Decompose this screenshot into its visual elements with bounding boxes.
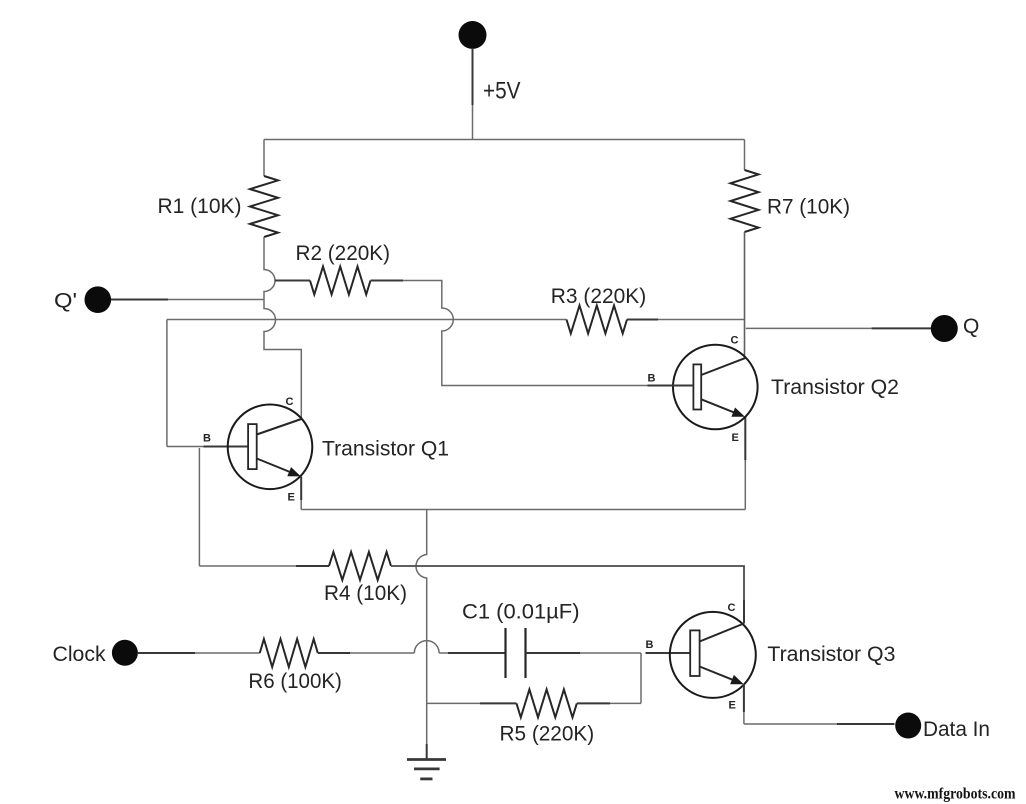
- svg-text:Transistor Q3: Transistor Q3: [767, 643, 895, 666]
- capacitor C1: [506, 628, 526, 678]
- wire Q2 emitter lead: [744, 417, 746, 510]
- wire C1 lead left dark: [448, 652, 506, 654]
- wire R4 to Q3 collector: [391, 566, 744, 624]
- svg-text:R4 (10K): R4 (10K): [324, 582, 407, 605]
- resistor R4: [329, 552, 391, 580]
- wire ground column to R5: [427, 702, 480, 704]
- svg-text:B: B: [646, 639, 654, 651]
- wire R3 lead right dark: [627, 319, 658, 321]
- svg-text:C: C: [728, 602, 736, 614]
- wire C1 to Q3 base node: [580, 652, 641, 654]
- svg-text:E: E: [729, 700, 736, 712]
- wire Q node to terminal: [746, 327, 872, 329]
- svg-text:Clock: Clock: [53, 643, 107, 666]
- terminal Clock: [112, 640, 195, 666]
- svg-text:Q': Q': [54, 290, 77, 313]
- svg-text:C: C: [286, 396, 294, 408]
- svg-text:R6 (100K): R6 (100K): [248, 670, 342, 693]
- resistor R1: [250, 176, 278, 237]
- wire Q2 emitter stub: [744, 417, 746, 460]
- wire R4 lead left: [199, 565, 296, 567]
- svg-text:R7 (10K): R7 (10K): [767, 196, 850, 219]
- svg-text:+5V: +5V: [483, 77, 521, 104]
- wire top supply rail: [264, 139, 745, 141]
- terminal Q: [931, 315, 958, 342]
- wire R2 lead right: [371, 280, 404, 282]
- wire Data In stub: [837, 723, 895, 725]
- terminal Data In: [895, 713, 921, 739]
- svg-text:C1 (0.01µF): C1 (0.01µF): [462, 601, 580, 624]
- resistor R2: [310, 267, 371, 295]
- wire Q3 collector stub: [743, 600, 745, 624]
- wire R5 to node: [610, 702, 641, 704]
- svg-text:E: E: [288, 492, 295, 504]
- wire C1 lead right dark: [526, 652, 581, 654]
- terminal Q': [85, 286, 169, 313]
- transistor Q2 body: [673, 345, 758, 430]
- wire R2 to Q2 base with hop: [403, 281, 648, 386]
- svg-text:R2 (220K): R2 (220K): [296, 242, 391, 265]
- svg-text:Q: Q: [963, 315, 979, 338]
- wire clock hop over ground column: [414, 641, 439, 653]
- wire Q2 base stub: [648, 385, 694, 387]
- wire emitter rail to ground with hop: [416, 510, 427, 745]
- resistor R7: [731, 170, 759, 232]
- svg-text:R3 (220K): R3 (220K): [551, 285, 646, 308]
- resistor R5: [517, 689, 577, 717]
- wire Q1 base stub: [204, 446, 249, 448]
- wire Q1 base column vertical: [166, 320, 168, 447]
- resistor R3: [567, 306, 628, 334]
- wire rail to R1: [263, 140, 265, 177]
- wire emitter rail: [301, 509, 745, 511]
- svg-text:B: B: [203, 433, 211, 445]
- wire Q1 emitter stub: [300, 477, 302, 501]
- transistor Q3 body: [670, 612, 756, 698]
- resistor R6: [260, 639, 318, 667]
- svg-text:C: C: [731, 335, 739, 347]
- svg-text:R5 (220K): R5 (220K): [500, 722, 595, 745]
- wire R7 to Q2 collector: [744, 232, 746, 358]
- terminal +5V (supply dot): [459, 21, 487, 105]
- svg-text:E: E: [732, 432, 739, 444]
- wire rail to R7: [744, 140, 746, 171]
- wire Q1 emitter lead: [300, 477, 302, 510]
- wire R3 row from Q1 base column: [167, 319, 567, 321]
- svg-text:Transistor Q2: Transistor Q2: [771, 376, 899, 399]
- wire Q1 base node down to R4: [198, 448, 200, 566]
- wire ground stub: [426, 744, 428, 759]
- wire hop to C1: [439, 652, 448, 654]
- wire Q terminal stub: [872, 327, 931, 329]
- wire node down to R5: [640, 653, 642, 703]
- wire emitter to Data In: [744, 723, 837, 725]
- wire R5 lead right dark: [577, 702, 610, 704]
- wire hop apex to R2: [275, 280, 310, 282]
- transistor Q1 body: [228, 405, 313, 490]
- wire Q3 emitter stub: [743, 684, 745, 712]
- wire R1 to node Q' with hops: [264, 237, 301, 419]
- wire R4 lead left dark: [296, 565, 329, 567]
- wire Q3 base stub: [646, 652, 691, 654]
- wire Q' to left branch: [168, 299, 264, 301]
- ground symbol: [407, 760, 446, 779]
- svg-text:www.mfgrobots.com: www.mfgrobots.com: [895, 786, 1016, 803]
- wire R3 to collector column: [658, 319, 745, 321]
- svg-text:Transistor Q1: Transistor Q1: [322, 437, 449, 460]
- wire R5 lead left dark: [480, 702, 517, 704]
- svg-text:B: B: [648, 373, 656, 385]
- wire Q3 emitter lead: [743, 685, 745, 725]
- svg-text:R1 (10K): R1 (10K): [158, 195, 242, 218]
- wire to Q1 base: [167, 446, 204, 448]
- wire R6 to hop: [350, 652, 414, 654]
- wire R6 lead right dark: [318, 652, 350, 654]
- svg-text:Data In: Data In: [923, 718, 990, 741]
- wire +5V stub to rail: [472, 105, 474, 140]
- wire Clock to R6: [195, 652, 260, 654]
